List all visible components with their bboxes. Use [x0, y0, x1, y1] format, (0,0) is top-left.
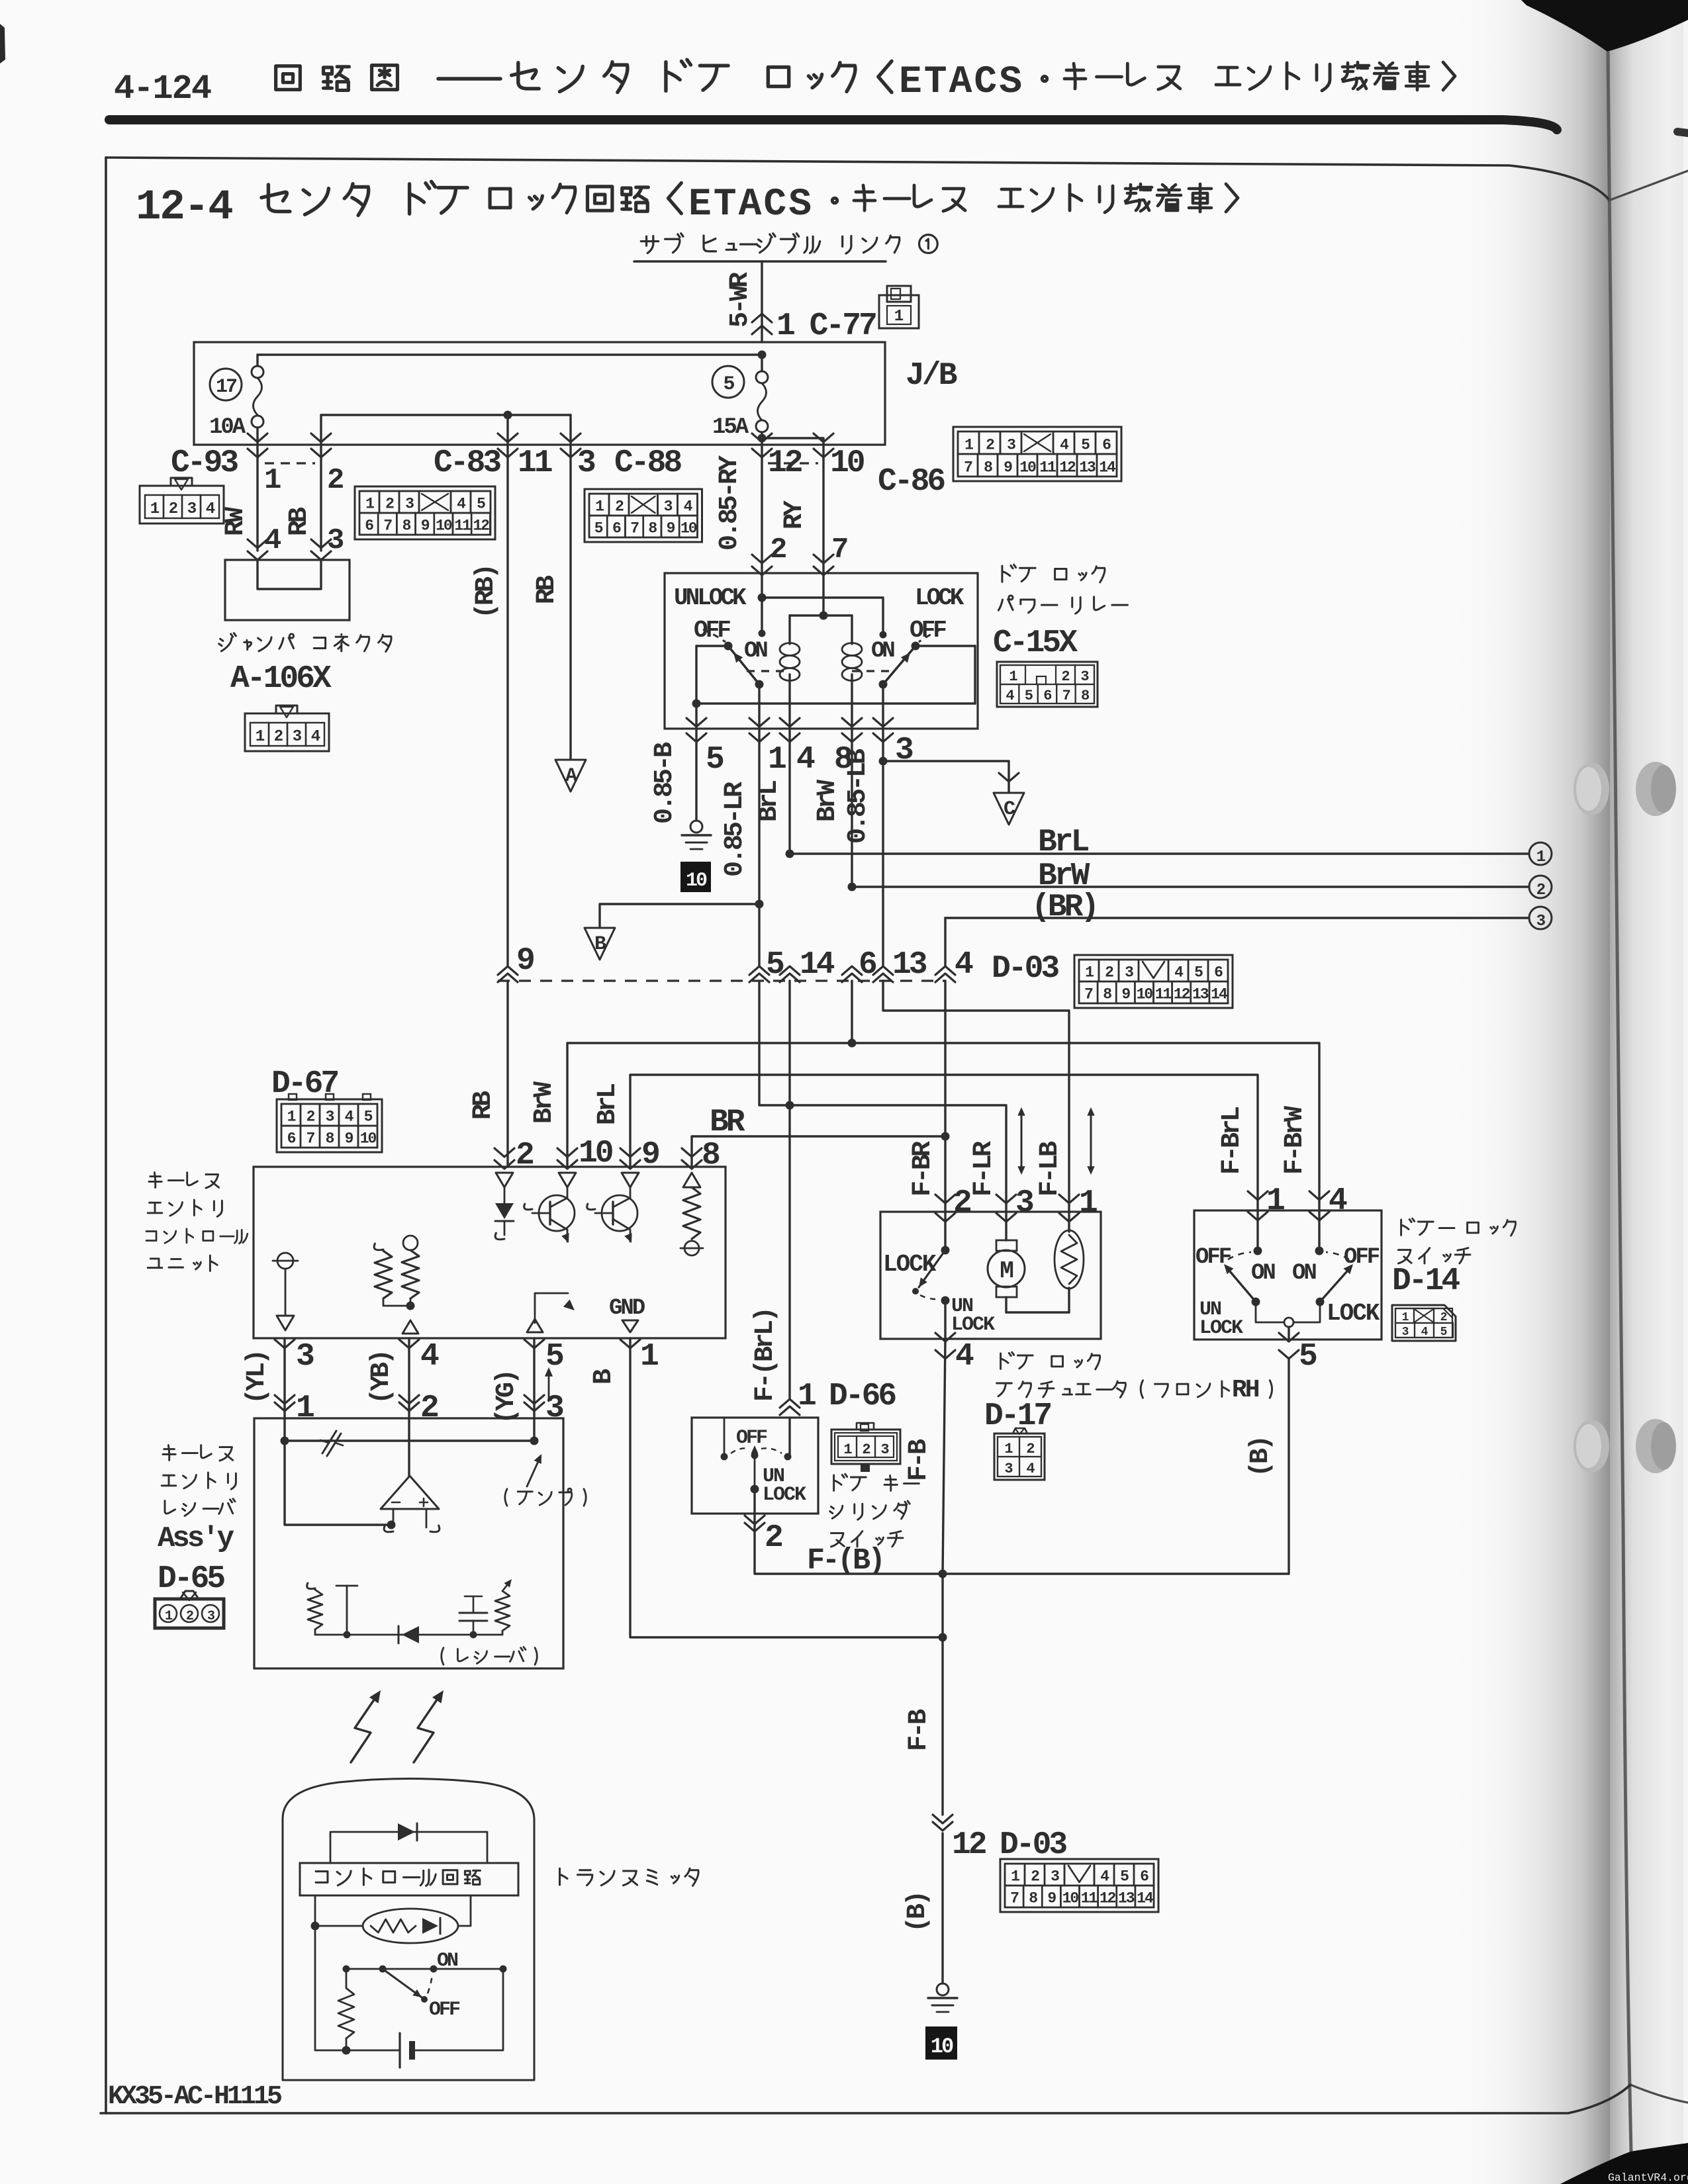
- svg-text:2: 2: [274, 728, 283, 746]
- svg-text:F-B: F-B: [904, 1709, 934, 1751]
- svg-text:1: 1: [296, 1390, 314, 1426]
- connector icon C-88: [585, 489, 702, 542]
- svg-text:(RB): (RB): [471, 566, 501, 619]
- actuator unlock wire to pin4: [944, 1300, 946, 1339]
- svg-text:RB: RB: [469, 1091, 498, 1120]
- svg-text:9: 9: [1004, 459, 1012, 477]
- arrows into relay: [752, 555, 772, 563]
- svg-text:10: 10: [931, 2034, 953, 2059]
- dashed throw left D-14: [1228, 1252, 1251, 1259]
- door lock switch box D-14: [1194, 1210, 1382, 1340]
- svg-text:ETACS: ETACS: [688, 183, 814, 226]
- driver symbol: [535, 1293, 568, 1323]
- receiver capacitor: [459, 1612, 487, 1614]
- svg-text:12: 12: [1100, 1890, 1116, 1907]
- label door key cylinder switch kana: [834, 1474, 847, 1490]
- D-14 left blade: [1226, 1267, 1256, 1302]
- svg-text:7: 7: [306, 1130, 315, 1148]
- transmitter diode loop: [330, 1832, 487, 1863]
- wire F-(BrL): D-03 pin14 down to D-66: [788, 981, 790, 1399]
- triangle connector C: [994, 793, 1024, 825]
- svg-text:F-LB: F-LB: [1035, 1141, 1065, 1197]
- transmitter battery: [399, 2033, 400, 2068]
- svg-text:0.85-RY: 0.85-RY: [715, 455, 745, 551]
- svg-text:13: 13: [892, 947, 927, 983]
- keyless entry control unit box: [254, 1167, 726, 1338]
- svg-text:11: 11: [1081, 1890, 1098, 1907]
- svg-text:C-86: C-86: [878, 464, 945, 500]
- actuator pin arrows: [935, 1195, 955, 1203]
- svg-text:14: 14: [800, 947, 835, 983]
- svg-text:7: 7: [1062, 688, 1070, 704]
- svg-text:B: B: [594, 933, 606, 956]
- ground symbol bottom: [937, 1983, 949, 1995]
- svg-text:C-15X: C-15X: [993, 625, 1078, 661]
- facing page top border curve: [1609, 171, 1688, 201]
- svg-text:5: 5: [1299, 1339, 1317, 1375]
- svg-text:9: 9: [516, 943, 534, 979]
- svg-text:F-BrW: F-BrW: [1280, 1106, 1310, 1175]
- svg-text:(YB): (YB): [367, 1351, 397, 1404]
- transmitter LED oval: [363, 1909, 458, 1943]
- D-66 unlock contact: [751, 1485, 759, 1494]
- svg-text:1: 1: [1536, 848, 1546, 866]
- svg-text:9: 9: [345, 1130, 353, 1148]
- top right gutter black wedge: [1521, 0, 1688, 52]
- contact dot right ON: [880, 631, 887, 639]
- radio wave arrow 2: [414, 1695, 440, 1762]
- svg-text:15A: 15A: [712, 415, 749, 440]
- J/B exit arrows: [248, 433, 267, 442]
- svg-text:6: 6: [365, 518, 373, 535]
- svg-text:1: 1: [964, 437, 973, 454]
- svg-text:D-66: D-66: [829, 1379, 896, 1414]
- svg-text:1: 1: [640, 1339, 658, 1375]
- diode inside control unit: [496, 1173, 513, 1187]
- D-03 pin 5 arrows: [749, 966, 769, 982]
- opamp legs: [393, 1509, 395, 1527]
- connector icon C-15X: [997, 662, 1098, 707]
- control unit pin10 arrow: [557, 1148, 577, 1157]
- D-14 common wiring: [1256, 1302, 1284, 1322]
- door key cylinder switch box D-66: [692, 1418, 818, 1514]
- arrow into D-03 pin12: [933, 1815, 953, 1831]
- C-93 dashed connector line: [265, 462, 315, 464]
- svg-text:3: 3: [187, 500, 197, 518]
- svg-text:10: 10: [360, 1130, 377, 1148]
- svg-text:GalantVR4.org: GalantVR4.org: [1608, 2171, 1688, 2184]
- connector icon C-77: [879, 295, 919, 328]
- fuse 5 symbol: [761, 355, 763, 371]
- svg-text:5: 5: [477, 496, 485, 513]
- connector icon A-106X: [245, 713, 329, 751]
- svg-text:BrW: BrW: [813, 780, 843, 822]
- svg-text:LOCK: LOCK: [951, 1314, 995, 1336]
- svg-text:10: 10: [686, 870, 707, 892]
- junction dot BrW: [848, 883, 857, 891]
- circled terminal 1: [1529, 842, 1552, 865]
- wire BrW net D-03 pin6 down: [851, 981, 853, 1043]
- control unit pin9 arrow: [620, 1148, 640, 1157]
- svg-text:11: 11: [454, 518, 471, 535]
- D-66 wiper: [751, 1452, 759, 1459]
- svg-text:2: 2: [1061, 668, 1069, 685]
- svg-text:C-93: C-93: [171, 445, 238, 481]
- svg-text:10: 10: [830, 445, 865, 481]
- svg-text:KX35-AC-H1115: KX35-AC-H1115: [108, 2082, 281, 2112]
- svg-text:8: 8: [1081, 688, 1090, 704]
- svg-text:1: 1: [843, 1441, 852, 1458]
- svg-text:2: 2: [986, 437, 994, 454]
- header thick rule: [109, 120, 1557, 130]
- connector arrow C-77 pin 1: [752, 314, 772, 322]
- triangle connector A: [555, 760, 586, 792]
- svg-text:2: 2: [186, 1609, 193, 1624]
- svg-text:3: 3: [326, 1109, 334, 1126]
- signal arrow YG: [548, 1371, 550, 1401]
- wire BrL relay pin4 down: [788, 729, 790, 854]
- control unit pin8 arrow: [682, 1148, 702, 1157]
- svg-text:7: 7: [1010, 1890, 1019, 1907]
- svg-text:1: 1: [595, 498, 604, 516]
- svg-text:1: 1: [264, 464, 281, 497]
- wire F-LR: D-03 pin5 to actuator pin3: [759, 981, 1006, 1212]
- junction dot LB branch: [879, 757, 888, 766]
- svg-text:GND: GND: [609, 1296, 645, 1321]
- page fold shading right side: [1417, 0, 1610, 2184]
- binder hole pair 1: [1573, 762, 1609, 815]
- svg-text:1: 1: [365, 496, 374, 513]
- svg-text:A-106X: A-106X: [230, 661, 332, 697]
- svg-text:14: 14: [1137, 1890, 1154, 1907]
- arrow into receiver pin2: [399, 1395, 419, 1411]
- control unit pin2 arrow: [494, 1148, 514, 1157]
- svg-text:F-LR: F-LR: [969, 1141, 999, 1197]
- label keyless entry receiver kana: [163, 1445, 175, 1461]
- wire BR: D-03 pin4 down to actuator pin2: [944, 981, 946, 1212]
- svg-text:4: 4: [1329, 1183, 1347, 1219]
- transmitter switch blade: [383, 1969, 422, 1997]
- svg-text:1: 1: [798, 1379, 816, 1414]
- D-14 pin arrows: [1248, 1191, 1268, 1200]
- svg-text:9: 9: [1047, 1890, 1056, 1907]
- coil bracket: [790, 614, 852, 616]
- transmitter control circuit box: [300, 1863, 518, 1895]
- junction block J/B box: [194, 342, 885, 445]
- svg-text:BrL: BrL: [593, 1084, 623, 1125]
- receiver resistor R1: [307, 1583, 315, 1589]
- svg-text:8: 8: [402, 518, 411, 535]
- D-03 pin 4 arrows: [935, 966, 955, 982]
- svg-text:1: 1: [1085, 964, 1094, 981]
- wire BrL to circle 1: [790, 852, 1529, 854]
- C-86 dashed connector line: [768, 462, 818, 464]
- wire fuse17 to C-93 pin1: [256, 428, 258, 457]
- svg-text:5: 5: [1025, 688, 1033, 704]
- radio wave arrow 1: [351, 1695, 377, 1762]
- svg-text:6: 6: [1214, 964, 1223, 981]
- svg-text:3: 3: [545, 1390, 563, 1426]
- svg-text:3: 3: [664, 498, 673, 516]
- svg-text:OFF: OFF: [429, 1999, 460, 2021]
- oscillator symbol left: [277, 1253, 293, 1269]
- transmitter switch row: [346, 1968, 503, 1970]
- underline of fusible link label: [634, 260, 886, 262]
- svg-text:12: 12: [473, 518, 489, 535]
- svg-text:RB: RB: [285, 507, 314, 536]
- motion arrow near F-LR: [1021, 1112, 1023, 1170]
- D-14 right blade: [1320, 1267, 1351, 1302]
- door lock actuator box D-17: [880, 1212, 1101, 1339]
- book gutter line: [1608, 53, 1631, 2151]
- svg-text:11: 11: [518, 445, 552, 481]
- svg-text:RY: RY: [780, 500, 810, 529]
- svg-text:2: 2: [306, 1109, 315, 1126]
- label transmitter kana: [560, 1868, 568, 1885]
- svg-text:4-124: 4-124: [114, 69, 211, 109]
- svg-text:10: 10: [1019, 459, 1036, 477]
- ground code 10 box bottom: [925, 2026, 957, 2060]
- wire BrW horizontal to control unit pin10 and D-14 pin4: [567, 1043, 1319, 1209]
- svg-text:5: 5: [1194, 964, 1203, 981]
- svg-text:17: 17: [216, 376, 236, 398]
- svg-text:1 C-77: 1 C-77: [776, 308, 876, 344]
- svg-text:D-03: D-03: [1000, 1827, 1066, 1863]
- junction dot BrL: [786, 850, 794, 858]
- wire C-93 pin2 to A-106X pin3: [320, 457, 322, 551]
- svg-text:LOCK: LOCK: [883, 1251, 937, 1278]
- svg-text:RB: RB: [532, 575, 562, 604]
- relay pin3 exit: [882, 684, 884, 729]
- wire BrL control unit pin9 to D-14 pin1: [630, 1075, 1258, 1209]
- fuse 17 circled label: [210, 369, 242, 400]
- svg-text:12: 12: [1059, 459, 1076, 477]
- resistor inside control unit pin8: [683, 1173, 700, 1187]
- label sub fusible link 1: [641, 236, 658, 253]
- junction dot BrW net: [848, 1039, 857, 1048]
- transmitter resistor: [346, 1969, 348, 1988]
- label jumper connector kana: [219, 633, 236, 651]
- connector icon C-93: [140, 486, 224, 523]
- svg-text:1: 1: [1079, 1185, 1097, 1221]
- svg-text:4: 4: [955, 1339, 974, 1375]
- svg-text:F-BrL: F-BrL: [1217, 1107, 1247, 1175]
- antenna break symbol: [322, 1431, 336, 1453]
- wire RB from C-83 pin11 down to D-03 pin9: [506, 457, 508, 966]
- label door lock power relay kana: [1002, 565, 1016, 582]
- svg-text:3: 3: [1536, 913, 1546, 931]
- svg-text:4: 4: [206, 500, 215, 518]
- antenna coupling line: [283, 1418, 285, 1441]
- svg-text:4: 4: [1026, 1461, 1035, 1477]
- arrow into receiver pin1: [275, 1395, 295, 1411]
- svg-text:10: 10: [1137, 986, 1153, 1003]
- svg-text:C: C: [1004, 798, 1015, 821]
- jumper link inside A-106X: [258, 560, 321, 589]
- opamp triangle: [381, 1476, 439, 1509]
- svg-text:2: 2: [953, 1185, 970, 1221]
- svg-text:1: 1: [894, 308, 904, 326]
- transmitter bus right: [415, 1969, 503, 2050]
- contact dot left ON: [759, 630, 766, 637]
- wire BrW to circle 2: [852, 886, 1529, 887]
- relay ground bus: [695, 646, 697, 704]
- D-14 pin5 exit: [1288, 1327, 1289, 1340]
- svg-text:2: 2: [1026, 1441, 1034, 1457]
- svg-text:3: 3: [1015, 1185, 1033, 1221]
- receiver resistor R2: [495, 1591, 510, 1631]
- wire B net D-14 pin5 down: [1288, 1358, 1289, 1574]
- connector icon D-65: [155, 1599, 224, 1628]
- svg-text:ON: ON: [1292, 1261, 1316, 1286]
- arrow into D-66 pin1: [780, 1399, 800, 1415]
- svg-text:11: 11: [1155, 986, 1172, 1003]
- motion arrow near F-LB: [1090, 1112, 1092, 1170]
- label keyless entry control unit kana: [149, 1173, 162, 1188]
- svg-text:10: 10: [1062, 1890, 1079, 1907]
- transmitter LED wiring: [314, 1895, 316, 1926]
- svg-text:9: 9: [667, 520, 675, 537]
- D-03 pin 9 arrows: [498, 966, 518, 982]
- svg-text:10: 10: [436, 518, 452, 535]
- svg-text:3: 3: [577, 445, 595, 481]
- D-03 dashed connector line: [498, 979, 945, 981]
- svg-text:2: 2: [516, 1138, 533, 1173]
- wire 5-WR from fusible link to C-77: [761, 261, 763, 342]
- svg-text:2: 2: [765, 1520, 782, 1556]
- junction dot at C-77 feed: [758, 351, 767, 359]
- svg-text:7: 7: [831, 533, 847, 567]
- svg-text:7: 7: [1084, 986, 1093, 1003]
- svg-text:2: 2: [420, 1390, 438, 1426]
- svg-text:8: 8: [648, 520, 657, 537]
- junction dot unlock feed: [758, 594, 767, 602]
- svg-text:8: 8: [1103, 986, 1111, 1003]
- wire 0.85-LR to triangle B junction: [755, 900, 764, 909]
- svg-text:LOCK: LOCK: [1327, 1300, 1380, 1327]
- wire unlock feed to lock switch contact: [762, 598, 883, 635]
- jumper connector A-106X box: [225, 560, 350, 620]
- svg-text:3: 3: [1080, 668, 1089, 685]
- transistor Q1: [559, 1173, 576, 1187]
- fuse 5 circled label: [712, 366, 744, 398]
- label amp kana: [505, 1489, 507, 1506]
- svg-text:LOCK: LOCK: [763, 1484, 806, 1506]
- wire branch to triangle C: [883, 761, 1009, 792]
- svg-text:3: 3: [1402, 1326, 1409, 1339]
- connector icon D-03 upper: [1074, 955, 1233, 1008]
- arrow into receiver pin3: [524, 1395, 544, 1411]
- ground code 10 box: [680, 862, 711, 892]
- svg-text:ETACS: ETACS: [899, 61, 1024, 104]
- wire F-LB: D-03 pin13 to actuator pin1: [883, 981, 1069, 1212]
- svg-text:LOCK: LOCK: [1199, 1317, 1243, 1340]
- svg-text:2: 2: [1536, 882, 1545, 899]
- door lock power relay box C-15X: [665, 573, 978, 729]
- svg-text:9: 9: [1121, 986, 1130, 1003]
- D-14 right contact: [1318, 1212, 1320, 1251]
- svg-text:(YG): (YG): [492, 1371, 522, 1424]
- svg-text:(B): (B): [903, 1893, 933, 1933]
- svg-text:BrW: BrW: [530, 1081, 559, 1124]
- svg-text:14: 14: [1211, 986, 1228, 1003]
- svg-text:4: 4: [420, 1339, 439, 1375]
- actuator motor: [1005, 1213, 1007, 1240]
- svg-text:3: 3: [1007, 437, 1015, 454]
- header rule fragment on facing page: [1677, 132, 1688, 133]
- right switch blade: [883, 646, 915, 684]
- svg-text:OFF: OFF: [736, 1427, 767, 1449]
- wire 0.85-LB continue down: [882, 761, 884, 966]
- label control circuit kana: [316, 1872, 328, 1883]
- svg-text:1: 1: [1004, 1441, 1013, 1457]
- relay coil L1: [780, 643, 800, 656]
- control unit pin4 exit: [399, 1340, 419, 1348]
- svg-text:6: 6: [612, 520, 621, 537]
- svg-text:5: 5: [364, 1109, 373, 1126]
- svg-text:D-67: D-67: [271, 1066, 338, 1102]
- svg-text:J/B: J/B: [906, 358, 957, 394]
- svg-text:0.85-LR: 0.85-LR: [720, 782, 750, 877]
- svg-text:10: 10: [579, 1136, 613, 1171]
- wire J/B internal bus 2: [321, 414, 571, 416]
- wire 0.85-LB relay pin3 down: [882, 729, 884, 761]
- wire J/B internal bus top: [258, 353, 762, 355]
- svg-text:1: 1: [150, 500, 160, 518]
- svg-text:F-(BrL): F-(BrL): [751, 1309, 780, 1402]
- wire F-B actuator pin4 down: [943, 1339, 945, 1574]
- svg-text:5: 5: [706, 742, 724, 778]
- svg-text:7: 7: [964, 459, 972, 477]
- wire 0.85-RY from J/B pin12 to relay pin2: [761, 457, 763, 572]
- svg-text:12: 12: [1174, 986, 1190, 1003]
- label door lock switch kana: [1401, 1218, 1415, 1235]
- svg-text:F-(B): F-(B): [807, 1544, 883, 1578]
- wire 0.85-LR relay pin1 down: [758, 729, 760, 966]
- amp wiper arrow: [527, 1459, 539, 1486]
- bottom right gutter black wedge: [1560, 2143, 1688, 2184]
- svg-text:13: 13: [1118, 1890, 1135, 1907]
- svg-text:LOCK: LOCK: [915, 584, 964, 612]
- dashed throw right D-14: [1326, 1252, 1349, 1259]
- svg-text:1: 1: [768, 742, 786, 778]
- svg-text:ON: ON: [1251, 1261, 1275, 1286]
- junction dot F-B at F-(B): [939, 1570, 947, 1578]
- svg-text:2: 2: [1105, 964, 1113, 981]
- keyless entry receiver box D-65: [254, 1418, 563, 1668]
- svg-text:0.85-LB: 0.85-LB: [843, 749, 873, 844]
- fuse 17 symbol: [252, 366, 263, 378]
- page header title: [276, 66, 301, 90]
- svg-text:BrL: BrL: [1038, 825, 1089, 860]
- svg-text:8: 8: [326, 1130, 334, 1148]
- resistor pair inside control unit: [374, 1244, 383, 1250]
- control unit pin5 exit: [524, 1340, 544, 1348]
- wire F-B down to D-03 pin12: [941, 1574, 943, 1815]
- transmitter body outline: [283, 1779, 534, 2081]
- svg-text:12-4: 12-4: [136, 184, 232, 232]
- relay coil feed pin7: [822, 573, 824, 615]
- svg-text:5: 5: [594, 520, 603, 537]
- svg-text:4: 4: [311, 728, 320, 746]
- svg-text:3: 3: [880, 1441, 889, 1458]
- wire 0.85-B to ground: [695, 729, 697, 821]
- svg-text:7: 7: [383, 518, 392, 535]
- svg-text:RW: RW: [221, 507, 251, 536]
- svg-text:1: 1: [1009, 668, 1017, 685]
- arrows into A-106X: [248, 539, 267, 548]
- connector icon D-67: [277, 1099, 382, 1152]
